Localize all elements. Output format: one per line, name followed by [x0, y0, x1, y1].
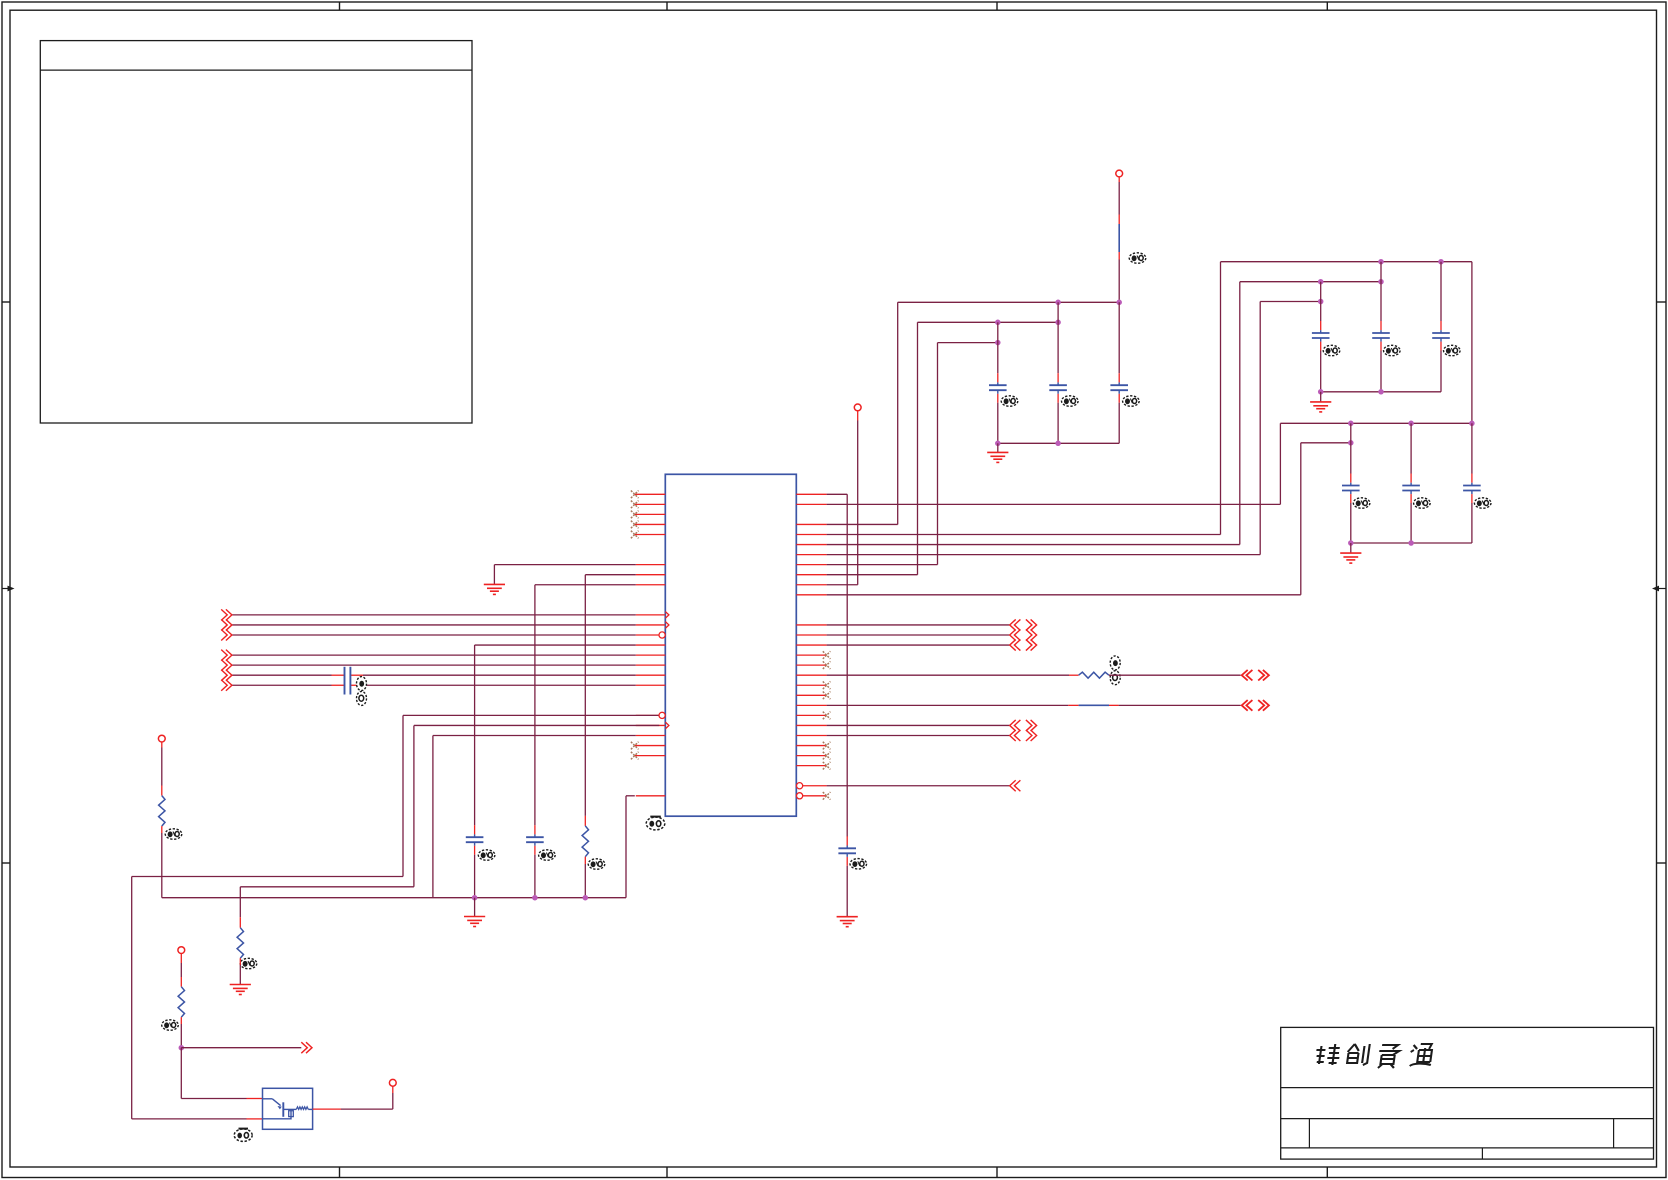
offpage connector right k13 — [1026, 619, 1037, 630]
offpage connector right k23 — [1026, 720, 1037, 731]
wire k5 to bank1 rail2 — [827, 544, 1240, 546]
wire C10 to rail — [1350, 503, 1352, 543]
capacitor C12 label — [1474, 498, 1491, 508]
IC right no-connect pin k26 — [796, 755, 826, 757]
wire C5 to gnd rail — [534, 855, 536, 898]
wire k24 to offpage — [827, 735, 1010, 737]
ground bottom rail — [464, 916, 485, 918]
IC U? designator label — [646, 817, 665, 830]
IC right no-connect pin k19 — [796, 684, 826, 686]
capacitor C10 label — [1353, 498, 1370, 508]
offpage connector left k13 — [1010, 619, 1021, 630]
capacitor C5 label — [539, 850, 556, 860]
ground stem bank2 — [1350, 543, 1352, 553]
IC left no-connect pin k4 — [635, 534, 666, 536]
wire k22L route — [403, 714, 659, 716]
offpage connector left k14 — [1010, 630, 1021, 641]
wire P4 down — [180, 963, 182, 977]
wire offpage to k12L — [232, 614, 636, 616]
junction E1 — [1348, 421, 1354, 427]
wire k23 to offpage — [827, 724, 1010, 726]
IC left pin stub row k19 — [636, 684, 666, 686]
junction F1 — [472, 895, 478, 901]
IC right no-connect pin k22 — [796, 714, 826, 716]
junction A1 — [1055, 300, 1061, 306]
junction F3 — [583, 895, 589, 901]
IC right no-connect pin k25 — [796, 745, 826, 747]
IC right pin stub row k4 — [796, 534, 826, 536]
GND rail left bank — [998, 442, 1119, 444]
wire offpage to k16L — [232, 654, 636, 656]
junction G3b — [1408, 540, 1414, 546]
capacitor C2 label — [1062, 396, 1079, 406]
offpage connector k17L — [221, 660, 232, 671]
IC right pin stub row k24 — [796, 735, 826, 737]
IC right pin stub row k3 — [796, 523, 826, 525]
capacitor C1 label — [1001, 396, 1018, 406]
wire R4 to gnd rail — [584, 864, 586, 898]
ground under C6 — [837, 916, 858, 918]
port P3 — [158, 735, 165, 742]
GND rail bank1 — [1321, 391, 1441, 393]
IC right pin stub row k6 — [796, 554, 826, 556]
title block row line 2 — [1281, 1118, 1654, 1120]
wire bank1 right drop — [1471, 262, 1473, 424]
IC right pin stub row k14 — [796, 634, 826, 636]
IC left clock pin k23 — [636, 724, 666, 726]
capacitor C6 — [846, 836, 848, 845]
border zone tick marks — [339, 2, 341, 10]
IC left pin stub row k15 — [636, 644, 666, 646]
wire R5 to offpage — [1109, 674, 1241, 676]
IC right pin stub row k13 — [796, 624, 826, 626]
ferrite FB1 label — [1129, 253, 1146, 263]
title block divider a — [1308, 1119, 1310, 1148]
capacitor C7 — [1320, 321, 1322, 330]
wire R3 to node — [180, 1024, 182, 1048]
junction D4 — [1378, 279, 1384, 285]
junction A2 — [1116, 300, 1122, 306]
series capacitor plates C13 — [344, 667, 346, 695]
wire C6 to ground — [846, 866, 848, 917]
wire offpage to k13L — [232, 624, 636, 626]
IC left pin stub row k9 — [636, 584, 666, 586]
wire k15 to offpage — [827, 644, 1010, 646]
offpage connector left big k21 — [1242, 700, 1253, 711]
resistor R1 — [159, 796, 165, 827]
resistor R2 red lead bottom — [239, 958, 241, 965]
VCC rail B — [918, 321, 1059, 323]
junction C1 — [995, 340, 1001, 346]
ground stem left bank — [997, 443, 999, 452]
offpage connector node — [301, 1042, 312, 1053]
title block row line 1 — [1281, 1087, 1654, 1089]
company logotype text — [1314, 1044, 1433, 1068]
wire C8 to rail — [1380, 351, 1382, 392]
wire C1 to rail — [997, 403, 999, 444]
offpage connector left k29 — [1010, 780, 1021, 791]
IC right no-connect pin k27 — [796, 765, 826, 767]
wire C12 column — [1471, 423, 1473, 473]
capacitor C8 — [1380, 321, 1382, 330]
title block frame — [1281, 1027, 1654, 1159]
capacitor C7 label — [1323, 345, 1340, 355]
wire rail y876 — [132, 876, 403, 878]
wire C9 to rail — [1440, 351, 1442, 392]
capacitor C9 label — [1444, 345, 1461, 355]
title block divider c — [1481, 1148, 1483, 1159]
junction E4 — [1348, 440, 1354, 446]
offpage connector right k14 — [1026, 630, 1037, 641]
wire C7 to rail — [1320, 351, 1322, 392]
wire k8L down — [585, 574, 636, 576]
wire offpage to k17L — [232, 664, 636, 666]
wire k18 to resistor R5 — [827, 674, 1069, 676]
resistor R3 red lead bottom — [180, 1017, 182, 1024]
port P2 — [854, 404, 861, 411]
ground under R2 — [230, 984, 251, 986]
IC left no-connect pin k25 — [635, 745, 666, 747]
capacitor C6 label — [850, 859, 867, 869]
transistor Q1 — [263, 1088, 313, 1129]
wire R2 to ground — [239, 965, 241, 985]
junction node Q-base — [179, 1045, 185, 1051]
IC left pin stub row k8 — [636, 574, 666, 576]
IC left no-connect pin k0 — [635, 493, 666, 495]
IC right pin stub row k8 — [796, 574, 826, 576]
resistor R2 label — [240, 958, 257, 968]
wire k10 to bank2 rail2 — [827, 594, 1301, 596]
wire k24L route — [433, 735, 636, 737]
port P2 stub — [857, 411, 859, 421]
junction G2a — [1318, 389, 1324, 395]
wire offpage to k19L a — [232, 684, 332, 686]
wire k7L to ground — [494, 564, 635, 566]
resistor R4 red lead top — [584, 816, 586, 826]
notes box — [40, 41, 472, 423]
IC right pin stub row k21 — [796, 704, 826, 706]
wire Q1 collector out — [313, 1108, 341, 1110]
wire k29 to offpage — [827, 785, 1010, 787]
port P5 stub — [392, 1086, 394, 1093]
bank1 rail 2 — [1240, 281, 1381, 283]
ground stem bottom rail — [474, 898, 476, 917]
ground left bank — [987, 451, 1008, 453]
resistor R3 red lead top — [180, 977, 182, 987]
offpage connector left k24 — [1010, 730, 1021, 741]
ferrite FB1 red lead top — [1118, 215, 1120, 225]
wire C9 column — [1440, 262, 1442, 321]
capacitor C1 — [997, 373, 999, 382]
IC right pin stub row k0 — [796, 493, 826, 495]
ground bank2 — [1340, 552, 1361, 554]
wire k21 to ferrite — [827, 704, 1069, 706]
offpage connector k19L — [221, 680, 232, 691]
wire C7 column — [1320, 282, 1322, 321]
wire k23L route — [414, 724, 659, 726]
port P5 — [389, 1079, 396, 1086]
wire C8 column — [1380, 262, 1382, 321]
wire k4 to bank1 rail — [827, 534, 1221, 536]
junction B1 — [995, 320, 1001, 326]
wire C10 column — [1350, 423, 1352, 473]
offpage connector k13L — [221, 619, 232, 630]
junction G2b — [1378, 389, 1384, 395]
IC right pin stub row k23 — [796, 724, 826, 726]
ground under k7L — [484, 583, 505, 585]
junction D2 — [1438, 259, 1444, 265]
border centering arrow right — [1652, 586, 1666, 592]
resistor R4 — [582, 826, 588, 857]
wire k23 branch down — [239, 887, 241, 917]
capacitor C9 — [1440, 321, 1442, 330]
resistor R1 red lead top — [161, 786, 163, 796]
offpage connector right big k18 — [1258, 670, 1269, 681]
wire k3 up — [827, 523, 898, 525]
IC right no-connect pin k16 — [796, 654, 826, 656]
resistor R2 — [237, 928, 243, 959]
junction D1 — [1378, 259, 1384, 265]
bank2 rail 2 — [1301, 442, 1351, 444]
bank1 rail 3 — [1260, 301, 1321, 303]
wire k1 to bank2 rail — [827, 503, 1281, 505]
offpage connector left k23 — [1010, 720, 1021, 731]
junction E2 — [1408, 421, 1414, 427]
wire k7 up — [827, 564, 938, 566]
resistor R1 label — [165, 829, 182, 839]
junction D5 — [1318, 299, 1324, 305]
offpage connector right k24 — [1026, 730, 1037, 741]
wire node to offpage — [181, 1047, 301, 1049]
resistor R1 red lead bottom — [161, 826, 163, 833]
junction G3a — [1348, 540, 1354, 546]
ground bank1 — [1310, 401, 1331, 403]
IC right pin stub row k15 — [796, 644, 826, 646]
wire C3 column — [1118, 302, 1120, 373]
IC right pin stub row k7 — [796, 564, 826, 566]
series cap red leads k19L — [332, 684, 345, 686]
junction G1b — [1055, 441, 1061, 447]
wire C12 to rail — [1471, 503, 1473, 543]
capacitor C5 — [534, 825, 536, 834]
offpage connector right big k21 — [1258, 700, 1269, 711]
resistor R5 label — [1110, 656, 1120, 685]
IC right pin stub row k9 — [796, 584, 826, 586]
ground stem bank1 — [1320, 392, 1322, 402]
wire C11 to rail — [1410, 503, 1412, 543]
GND rail bottom — [162, 897, 626, 899]
IC left pin stub row k18 — [636, 674, 666, 676]
wire C1 column — [997, 322, 999, 373]
capacitor C3 label — [1123, 396, 1140, 406]
resistor R5 — [1079, 672, 1109, 678]
wire FB2 to offpage — [1119, 704, 1241, 706]
IC left inverted pin k22 — [636, 714, 659, 716]
capacitor C11 — [1410, 474, 1412, 483]
port P1 — [1116, 170, 1123, 177]
offpage connector k14L — [221, 630, 232, 641]
junction F2 — [532, 895, 538, 901]
ferrite bead FB1 — [1118, 224, 1120, 252]
IC U? body — [665, 474, 796, 816]
IC left no-connect pin k3 — [635, 523, 666, 525]
resistor R2 red lead top — [239, 917, 241, 928]
IC left no-connect pin k1 — [635, 503, 666, 505]
capacitor C10 — [1350, 474, 1352, 483]
wire R1 to gnd rail — [161, 833, 163, 898]
wire offpage to k18L a — [232, 674, 332, 676]
series cap red leads k18L — [332, 674, 345, 676]
offpage connector right k15 — [1026, 640, 1037, 651]
capacitor C12 — [1471, 474, 1473, 483]
IC left pin stub row k24 — [636, 735, 666, 737]
wire k9L down — [535, 584, 636, 586]
IC right pin stub row k5 — [796, 544, 826, 546]
IC left no-connect pin k2 — [635, 513, 666, 515]
wire node down — [180, 1048, 182, 1099]
wire k8 up — [827, 574, 918, 576]
wire k6 to bank1 rail3 — [827, 554, 1261, 556]
wire offpage to k14L — [232, 634, 636, 636]
ferrite FB2 red lead — [1109, 704, 1119, 706]
title block divider b — [1613, 1119, 1615, 1148]
offpage connector k12L — [221, 609, 232, 620]
resistor R4 red lead bottom — [584, 857, 586, 864]
resistor R3 label — [162, 1020, 179, 1030]
wire C2 column — [1057, 302, 1059, 373]
border centering arrow left — [2, 586, 15, 592]
bank1 rail top — [1221, 261, 1472, 263]
capacitor C11 label — [1414, 498, 1431, 508]
IC left pin stub row k17 — [636, 664, 666, 666]
wire k19L b — [357, 684, 636, 686]
junction D3 — [1318, 279, 1324, 285]
IC left inverted pin k14 — [636, 634, 659, 636]
junction G1a — [995, 441, 1001, 447]
IC right no-connect pin k17 — [796, 664, 826, 666]
VCC rail C — [938, 342, 998, 344]
IC left clock pin k12 — [636, 614, 666, 616]
IC left pin stub row k7 — [636, 564, 666, 566]
resistor R3 — [178, 987, 184, 1018]
capacitor C2 — [1057, 373, 1059, 382]
ferrite FB1 red lead bottom — [1118, 252, 1120, 260]
title block row line 3 — [1281, 1147, 1654, 1149]
IC left pin stub row k30 — [636, 795, 666, 797]
IC left no-connect pin k26 — [635, 755, 666, 757]
wire P3 down — [161, 742, 163, 748]
capacitor C4 — [474, 825, 476, 834]
IC right no-connect pin k20 — [796, 694, 826, 696]
offpage connector k18L — [221, 670, 232, 681]
wire k15L down — [475, 644, 636, 646]
wire P4 stub — [180, 954, 182, 964]
IC left pin stub row k16 — [636, 654, 666, 656]
wire k18L b — [363, 674, 636, 676]
IC right pin stub row k10 — [796, 594, 826, 596]
wire C11 column — [1410, 423, 1412, 473]
offpage connector left k15 — [1010, 640, 1021, 651]
VCC rail A — [898, 301, 1119, 303]
wire C4 to gnd rail — [474, 855, 476, 898]
transistor Q1 label — [234, 1129, 252, 1142]
wire rail y887 — [240, 886, 414, 888]
wire y876 rail down — [131, 877, 133, 1119]
capacitor C4 label — [478, 850, 495, 860]
IC right pin stub row k1 — [796, 503, 826, 505]
port P4 — [178, 947, 185, 954]
bank2 rail top — [1280, 422, 1472, 424]
series capacitor C13 label — [357, 677, 367, 706]
wire to Q1 lower — [132, 1118, 247, 1120]
offpage connector left big k18 — [1242, 670, 1253, 681]
IC left clock pin k13 — [636, 624, 666, 626]
wire FB1 to rail — [1118, 260, 1120, 303]
IC right inverted no-connect pin k30 — [797, 793, 803, 799]
capacitor C3 — [1118, 373, 1120, 382]
capacitor C8 label — [1384, 345, 1401, 355]
wire k14 to offpage — [827, 634, 1010, 636]
wire k13 to offpage — [827, 624, 1010, 626]
wire k9 to port column — [827, 584, 858, 586]
wire k0 to C6 column — [827, 493, 848, 495]
junction E3 — [1469, 421, 1475, 427]
IC right pin stub row k18 — [796, 674, 826, 676]
notes box header line — [40, 69, 472, 71]
junction B2 — [1055, 320, 1061, 326]
wire C2 to rail — [1057, 403, 1059, 444]
GND rail bank2 — [1351, 542, 1472, 544]
wire P1 down — [1118, 177, 1120, 182]
IC right inverted pin k29 — [797, 783, 803, 789]
resistor R4 label — [588, 859, 605, 869]
wire node to Q1 upper — [181, 1098, 246, 1100]
wire k30L route — [626, 795, 635, 797]
wire C3 to rail — [1118, 403, 1120, 444]
ferrite bead FB2 — [1079, 704, 1109, 706]
offpage connector k16L — [221, 650, 232, 661]
wire Q1 out up — [392, 1093, 394, 1109]
